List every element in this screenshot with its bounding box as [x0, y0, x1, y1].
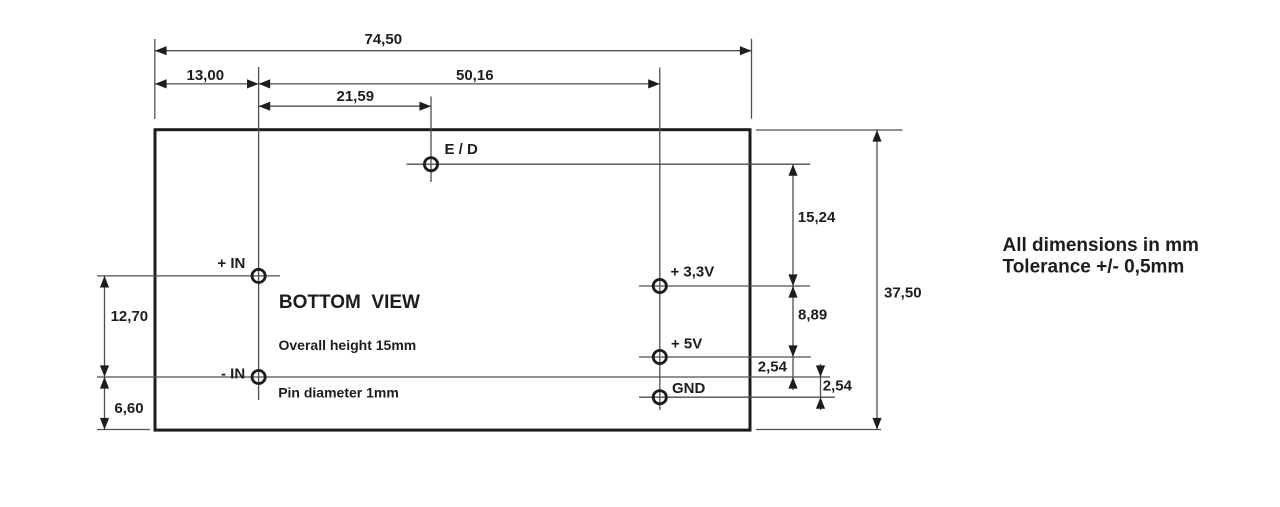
- svg-text:2,54: 2,54: [823, 378, 853, 395]
- horizontal extension line top edge right: [756, 129, 903, 131]
- dimension line 13,00: [155, 83, 259, 85]
- svg-text:37,50: 37,50: [884, 285, 922, 302]
- svg-text:2,54: 2,54: [758, 359, 788, 376]
- pin E/D: [424, 158, 437, 171]
- pin +IN: [252, 269, 265, 282]
- svg-text:Pin diameter 1mm: Pin diameter 1mm: [278, 384, 399, 400]
- pin +5V: [653, 350, 666, 363]
- extension line pin column 2: [659, 68, 661, 411]
- svg-text:Overall height 15mm: Overall height 15mm: [279, 337, 417, 353]
- svg-text:21,59: 21,59: [337, 88, 375, 105]
- extension line right edge (top): [751, 39, 753, 119]
- pin +3,3V: [653, 279, 666, 292]
- svg-text:All dimensions in mm: All dimensions in mm: [1003, 235, 1199, 256]
- horizontal extension line +5V level: [639, 356, 811, 358]
- horizontal extension line bottom edge left: [97, 429, 150, 431]
- svg-text:+ 5V: + 5V: [671, 336, 702, 353]
- svg-text:GND: GND: [672, 380, 706, 397]
- pin GND: [653, 391, 666, 404]
- svg-text:12,70: 12,70: [111, 308, 149, 325]
- dimension line 37,50 (far right vertical): [876, 130, 878, 430]
- dimension line 2,54 second (x=820.5): [820, 364, 822, 410]
- horizontal extension line -IN level (long): [97, 376, 830, 378]
- horizontal extension line +3,3V level: [639, 285, 810, 287]
- svg-text:BOTTOM VIEW: BOTTOM VIEW: [279, 292, 420, 313]
- horizontal extension line bottom edge right: [756, 429, 881, 431]
- svg-text:6,60: 6,60: [114, 400, 143, 417]
- module outline rectangle (bottom view body): [155, 130, 750, 430]
- svg-text:13,00: 13,00: [187, 67, 225, 84]
- svg-text:Tolerance +/- 0,5mm: Tolerance +/- 0,5mm: [1003, 256, 1185, 277]
- svg-text:- IN: - IN: [221, 365, 245, 382]
- svg-text:+ IN: + IN: [217, 255, 245, 272]
- dimension line 74,50: [155, 50, 752, 52]
- dimension line 12,70 / 6,60 (left vertical): [104, 276, 106, 430]
- svg-text:50,16: 50,16: [456, 67, 494, 84]
- horizontal extension line E/D level: [407, 163, 811, 165]
- extension line left edge (top): [154, 39, 156, 119]
- svg-text:74,50: 74,50: [365, 31, 403, 48]
- svg-text:8,89: 8,89: [798, 307, 827, 324]
- extension line pin column 1: [258, 67, 260, 400]
- svg-text:+ 3,3V: + 3,3V: [671, 264, 715, 281]
- dimension line 50,16: [259, 83, 660, 85]
- dimension line 21,59: [259, 105, 431, 107]
- svg-text:E / D: E / D: [445, 141, 479, 158]
- horizontal extension line +IN level: [97, 275, 280, 277]
- extension line E/D column: [430, 97, 432, 183]
- horizontal extension line GND level: [639, 396, 835, 398]
- pin -IN: [252, 370, 265, 383]
- dimension line 15,24 / 8,89 (right vertical at x=793): [792, 164, 794, 390]
- svg-text:15,24: 15,24: [798, 209, 836, 226]
